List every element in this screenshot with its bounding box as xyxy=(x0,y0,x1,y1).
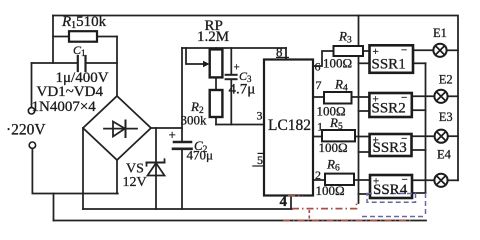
svg-text:LC182: LC182 xyxy=(268,117,311,134)
svg-text:R4: R4 xyxy=(334,77,348,94)
svg-text:E2: E2 xyxy=(439,73,453,87)
svg-text:100Ω: 100Ω xyxy=(316,183,345,198)
svg-text:6: 6 xyxy=(315,60,321,74)
svg-text:+: + xyxy=(373,135,379,147)
svg-text:SSR1: SSR1 xyxy=(372,57,406,73)
svg-text:1: 1 xyxy=(317,120,323,134)
svg-text:E3: E3 xyxy=(439,110,453,124)
svg-text:C1: C1 xyxy=(73,43,86,58)
svg-text:470μ: 470μ xyxy=(187,148,214,163)
svg-text:R1510k: R1510k xyxy=(61,14,107,31)
svg-text:12V: 12V xyxy=(123,175,147,190)
svg-text:+: + xyxy=(169,127,176,142)
svg-text:5: 5 xyxy=(257,153,263,167)
svg-text:4: 4 xyxy=(280,194,288,210)
svg-text:3: 3 xyxy=(257,109,263,123)
svg-text:R6: R6 xyxy=(326,157,340,174)
svg-text:VD1~VD4: VD1~VD4 xyxy=(37,84,104,100)
svg-text:+: + xyxy=(373,94,379,106)
svg-text:2: 2 xyxy=(315,168,321,182)
svg-text:−: − xyxy=(401,45,407,57)
svg-text:+: + xyxy=(373,176,379,188)
svg-text:E1: E1 xyxy=(433,26,447,40)
svg-text:·220V: ·220V xyxy=(6,122,46,139)
svg-text:E4: E4 xyxy=(437,148,452,162)
svg-text:1N4007×4: 1N4007×4 xyxy=(32,99,97,115)
svg-text:4.7μ: 4.7μ xyxy=(229,82,256,98)
svg-text:−: − xyxy=(401,133,407,145)
svg-text:300k: 300k xyxy=(181,113,208,128)
svg-text:−: − xyxy=(401,92,407,104)
svg-text:+: + xyxy=(373,46,379,58)
svg-text:100Ω: 100Ω xyxy=(323,56,352,71)
svg-text:7: 7 xyxy=(316,78,322,92)
svg-text:R3: R3 xyxy=(338,29,352,46)
svg-text:−: − xyxy=(402,174,408,186)
svg-text:1.2M: 1.2M xyxy=(197,29,229,45)
svg-text:100Ω: 100Ω xyxy=(319,140,348,155)
